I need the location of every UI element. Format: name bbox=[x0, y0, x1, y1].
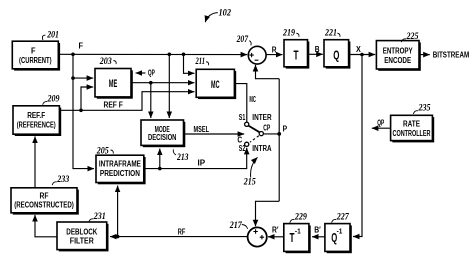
svg-text:205: 205 bbox=[96, 146, 109, 156]
svg-text:(CURRENT): (CURRENT) bbox=[19, 56, 52, 65]
wire P to summer 217 plus input bbox=[256, 201, 280, 226]
svg-text:X: X bbox=[356, 45, 361, 54]
svg-text:102: 102 bbox=[219, 8, 232, 18]
ref numeral 235 leader bbox=[413, 111, 418, 114]
svg-text:S1: S1 bbox=[239, 113, 246, 122]
svg-text:INTRA: INTRA bbox=[252, 144, 271, 153]
wire ME output branch down into MODE DECISION top input 1 bbox=[150, 83, 152, 118]
svg-text:201: 201 bbox=[46, 31, 59, 41]
block 209 REF.F (REFERENCE) bbox=[13, 106, 61, 136]
switch 215 terminal S1 bbox=[245, 122, 249, 126]
wire MC output down to switch terminal S1 bbox=[235, 84, 247, 122]
svg-text:T: T bbox=[290, 230, 295, 245]
svg-text:T: T bbox=[294, 48, 299, 63]
wire IP branch up into MODE DECISION bottom bbox=[159, 149, 161, 169]
svg-text:-1: -1 bbox=[295, 227, 301, 236]
wire branch up into INTRAFRAME PREDICTION bottom bbox=[117, 186, 119, 237]
junction on REF F wire at x=81 bbox=[79, 109, 83, 113]
ref numeral 205 leader bbox=[111, 150, 114, 154]
ref numeral 227 leader bbox=[332, 219, 337, 222]
svg-text:215: 215 bbox=[243, 178, 256, 188]
svg-text:DECISION: DECISION bbox=[148, 133, 177, 142]
wire F tee into ME input 1 bbox=[73, 77, 93, 79]
junction on F wire at x=169.3 bbox=[168, 53, 172, 57]
svg-text:207: 207 bbox=[236, 35, 249, 45]
junction on IP wire at x=159.8 bbox=[158, 167, 162, 171]
block 231 DEBLOCK FILTER bbox=[57, 222, 109, 251]
junction on F wire at x=73 bbox=[71, 53, 75, 57]
wire IP from INTRAFRAME PREDICTION to switch terminal S2 bbox=[144, 148, 247, 169]
ref numeral 215 arrow to switch bbox=[251, 157, 258, 177]
svg-text:ME: ME bbox=[109, 78, 118, 90]
ref numeral 213 leader bbox=[173, 149, 176, 155]
svg-text:235: 235 bbox=[418, 104, 431, 114]
wire B-prime from Q-inverse to T-inverse bbox=[312, 236, 325, 238]
svg-text:IP: IP bbox=[198, 158, 206, 167]
svg-text:221: 221 bbox=[324, 29, 337, 39]
block 203 ME bbox=[95, 69, 133, 99]
wire X branch down to Q-inverse bbox=[353, 55, 362, 237]
ref numeral 211 leader bbox=[206, 62, 209, 66]
ref numeral 203 leader bbox=[114, 61, 117, 65]
block 221 Q bbox=[324, 40, 350, 69]
summer 207 bbox=[248, 46, 266, 64]
svg-text:QP: QP bbox=[148, 69, 155, 78]
svg-text:225: 225 bbox=[406, 32, 419, 42]
wire F riser x=73 down to intraframe prediction input bbox=[73, 54, 94, 168]
svg-text:RF: RF bbox=[40, 191, 49, 200]
wire ME output to MC input 2 bbox=[132, 82, 195, 84]
block 211 MC bbox=[196, 69, 236, 99]
svg-text:F: F bbox=[31, 46, 36, 55]
wire RF(RECONSTRUCTED) up into REF.F bbox=[34, 136, 36, 187]
svg-text:MC: MC bbox=[249, 95, 256, 104]
ref numeral 207 leader bbox=[249, 41, 251, 46]
svg-text:229: 229 bbox=[294, 212, 307, 222]
wire RF from summer 217 output to DEBLOCK FILTER bbox=[110, 236, 248, 238]
svg-text:RF: RF bbox=[178, 228, 186, 237]
svg-text:211: 211 bbox=[195, 57, 205, 67]
wire F riser x=183.5 into MC input 1 bbox=[184, 54, 195, 73]
svg-text:MSEL: MSEL bbox=[194, 125, 210, 134]
wire REF F branch into ME input 2 bbox=[81, 87, 93, 110]
wire F riser x=169.3 down into MODE DECISION top input 2 bbox=[168, 54, 170, 118]
switch 215 terminal S2 bbox=[245, 142, 249, 146]
ref numeral 221 leader bbox=[337, 33, 340, 37]
svg-text:INTER: INTER bbox=[252, 113, 271, 122]
svg-text:CP: CP bbox=[263, 124, 270, 133]
svg-text:REF F: REF F bbox=[104, 101, 123, 110]
wire P to summer 207 minus input bbox=[256, 65, 280, 79]
wire R from summer 207 to T bbox=[266, 54, 282, 56]
block 227 Q-inverse bbox=[325, 224, 352, 254]
wire R-prime from T-inverse to summer 217 bbox=[268, 236, 284, 238]
svg-text:203: 203 bbox=[99, 57, 112, 67]
wire CP to node P bbox=[263, 133, 279, 135]
svg-text:RATE: RATE bbox=[403, 120, 421, 129]
junction on ME output at x=150.8 bbox=[149, 81, 153, 85]
block 205 INTRAFRAME PREDICTION bbox=[96, 155, 146, 184]
block 201 F (CURRENT) bbox=[12, 41, 60, 70]
block 225 ENTROPY ENCODE bbox=[376, 41, 420, 71]
wire X from Q to ENTROPY ENCODE bbox=[349, 54, 375, 56]
junction on RF wire at x=117.6 bbox=[116, 235, 120, 239]
junction on X wire bbox=[360, 53, 364, 57]
switch 215 terminal CP bbox=[259, 132, 263, 136]
svg-text:F: F bbox=[79, 42, 84, 51]
wire P vertical line bbox=[278, 79, 280, 202]
figure numeral 102 arrow bbox=[205, 13, 218, 23]
ref numeral 217 leader bbox=[242, 225, 248, 229]
junction at (73,78.1) bbox=[71, 76, 75, 80]
svg-text:209: 209 bbox=[47, 95, 60, 105]
wire BITSTREAM output of ENTROPY ENCODE bbox=[419, 54, 430, 56]
svg-text:(REFERENCE): (REFERENCE) bbox=[17, 120, 56, 129]
svg-text:ENTROPY: ENTROPY bbox=[383, 46, 414, 55]
ref numeral 219 leader bbox=[296, 33, 299, 37]
svg-text:217: 217 bbox=[229, 221, 243, 231]
svg-text:MC: MC bbox=[211, 79, 220, 91]
wire MSEL from MODE DECISION to switch common bbox=[184, 133, 244, 135]
svg-text:B: B bbox=[315, 45, 320, 54]
svg-text:DEBLOCK: DEBLOCK bbox=[66, 227, 97, 236]
wire DEBLOCK FILTER output up into RF(RECONSTRUCTED) bbox=[35, 215, 57, 237]
wire QP arrow into ME right side bbox=[136, 72, 146, 74]
svg-text:ENCODE: ENCODE bbox=[384, 56, 412, 65]
svg-text:FILTER: FILTER bbox=[70, 237, 94, 246]
ref numeral 229 leader bbox=[290, 219, 295, 222]
wire F main horizontal from F(CURRENT) to summer 207 bbox=[58, 53, 247, 55]
block 229 T-inverse bbox=[284, 224, 311, 254]
switch 215 dashed alternate position toward S2 bbox=[250, 136, 259, 143]
block 233 RF (RECONSTRUCTED) bbox=[11, 188, 79, 215]
svg-text:Q: Q bbox=[333, 48, 339, 63]
svg-text:213: 213 bbox=[176, 153, 189, 163]
svg-text:CONTROLLER: CONTROLLER bbox=[393, 129, 431, 138]
svg-text:S2: S2 bbox=[239, 144, 246, 153]
ref numeral 233 leader bbox=[52, 182, 57, 185]
ref numeral 201 leader bbox=[42, 35, 45, 40]
svg-text:219: 219 bbox=[282, 29, 295, 39]
svg-text:233: 233 bbox=[56, 175, 69, 185]
svg-text:-1: -1 bbox=[337, 227, 343, 236]
svg-text:231: 231 bbox=[93, 212, 106, 222]
svg-text:P: P bbox=[283, 124, 288, 133]
ref numeral 225 leader bbox=[401, 39, 406, 42]
svg-text:QP: QP bbox=[377, 119, 384, 128]
ref numeral 231 leader bbox=[89, 219, 94, 222]
svg-text:PREDICTION: PREDICTION bbox=[100, 169, 140, 178]
ref numeral 209 leader bbox=[43, 102, 48, 105]
svg-text:R: R bbox=[272, 46, 277, 55]
junction on F wire at x=183.5 bbox=[182, 53, 186, 57]
svg-text:B′: B′ bbox=[314, 226, 321, 235]
summer 217 bbox=[248, 227, 267, 246]
block 213 MODE DECISION bbox=[141, 120, 185, 147]
wire REF F from REF.F box to MC input 3 bbox=[59, 92, 194, 111]
block 219 T bbox=[284, 40, 309, 69]
svg-text:(RECONSTRUCTED): (RECONSTRUCTED) bbox=[14, 201, 74, 210]
svg-text:BITSTREAM: BITSTREAM bbox=[433, 50, 470, 59]
svg-text:R′: R′ bbox=[272, 226, 279, 235]
svg-text:227: 227 bbox=[336, 212, 350, 222]
svg-text:REF.F: REF.F bbox=[27, 111, 45, 120]
node P junction dot bbox=[277, 132, 281, 136]
wire QP from RATE CONTROLLER to the left bbox=[372, 127, 391, 129]
wire B from T to Q bbox=[307, 53, 322, 55]
switch 215 lever S1 to CP bbox=[248, 126, 259, 133]
svg-text:INTRAFRAME: INTRAFRAME bbox=[99, 159, 142, 168]
block 235 RATE CONTROLLER bbox=[391, 115, 435, 142]
